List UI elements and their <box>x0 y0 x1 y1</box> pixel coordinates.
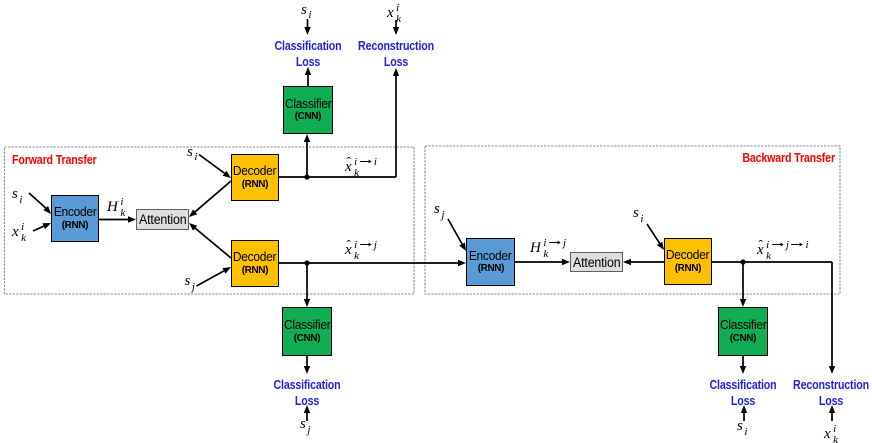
node label H_k^i <box>107 197 126 218</box>
classifier box Classifier2 <box>282 307 332 356</box>
decoder box Decoder2 <box>231 240 279 287</box>
encoder box Encoder2 <box>466 238 515 286</box>
wire x_k^i down to Reconstruction Loss (top) <box>395 20 397 27</box>
wire s_i to Encoder1 <box>29 193 46 208</box>
wire s_i down to Classification Loss (top) <box>307 19 309 27</box>
node label s_i (decoder1 input) <box>187 145 196 160</box>
dashed container: Forward Transfer box <box>5 147 415 294</box>
wire Decoder1 to Attention1 <box>195 181 231 212</box>
label Backward Transfer <box>742 150 835 165</box>
node label x-hat_k^{i to i} <box>345 157 377 178</box>
label Reconstruction Loss (bottom right) <box>786 377 872 408</box>
wire Classifier1 to Classification Loss <box>307 75 309 86</box>
classifier box Classifier3 <box>718 307 768 356</box>
classifier box Classifier1 <box>283 86 333 134</box>
wire Decoder3 to Attention2 <box>631 261 664 263</box>
junction dot B <box>304 260 309 265</box>
wire x_k^i to Encoder1 <box>33 226 44 231</box>
wire Decoder2 to Attention1 <box>195 228 231 258</box>
junction dot C <box>740 259 745 264</box>
node label s_j (encoder2 input) <box>434 202 443 217</box>
node label x_k^i (encoder1 input) <box>12 222 27 243</box>
node label H_k^{i to j} <box>530 238 567 259</box>
attention box Attention2 <box>570 252 623 272</box>
node label s_i (decoder3 input) <box>633 206 642 221</box>
node label s_j (bottom center) <box>300 417 309 432</box>
wire Classifier2 down to Classification Loss <box>306 356 308 366</box>
wire s_j to Decoder2 <box>197 271 225 286</box>
decoder box Decoder1 <box>231 154 279 201</box>
attention box Attention1 <box>136 209 189 230</box>
wire s_j up to Classification Loss (bottom) <box>306 413 308 421</box>
wire Classifier3 down to Classification Loss <box>742 356 744 366</box>
label Forward Transfer <box>12 152 96 167</box>
wire junction to Classifier1 <box>306 142 308 177</box>
wire vertical down to Reconstruction Loss (right) <box>831 262 833 366</box>
encoder box Encoder1 <box>51 195 99 242</box>
wire Encoder1 to Attention1 <box>99 219 128 221</box>
wire Decoder1 output horizontal <box>279 176 396 178</box>
wire s_i to Decoder1 <box>199 155 225 174</box>
wire x_k^i up to Reconstruction Loss (bottom right) <box>831 413 833 421</box>
wire Decoder3 output horizontal <box>712 261 832 263</box>
label Classification Loss (top) <box>262 38 352 69</box>
wire s_i up to Classification Loss (bottom right) <box>743 413 745 421</box>
node label s_i (encoder1 input) <box>12 187 21 202</box>
junction dot A <box>304 174 309 179</box>
wire junction to Classifier2 <box>306 263 308 299</box>
wire junction to Classifier3 <box>742 262 744 299</box>
decoder box Decoder3 <box>664 238 712 285</box>
node label x_k^i (bottom right) <box>824 424 839 443</box>
node label x-hat_k^{i to j} <box>345 240 377 261</box>
label Classification Loss (bottom center) <box>262 377 352 408</box>
node label x_k^i (top) <box>387 3 402 24</box>
wire s_j to Encoder2 <box>448 219 462 244</box>
wire Decoder2 output to Encoder2 <box>279 262 458 264</box>
node label s_j (decoder2 input) <box>185 274 194 289</box>
label Classification Loss (bottom right) <box>698 377 788 408</box>
label Reconstruction Loss (top) <box>350 38 440 69</box>
wire s_i to Decoder3 <box>647 224 660 243</box>
node label s_i (top) <box>301 3 310 18</box>
node label x-hat_k^{i to j to i} <box>757 240 809 261</box>
node label s_i (bottom right) <box>737 419 746 434</box>
wire Encoder2 to Attention2 <box>515 261 562 263</box>
wire vertical up to Reconstruction Loss (left) <box>395 76 397 177</box>
dashed container: Backward Transfer box <box>425 146 840 294</box>
